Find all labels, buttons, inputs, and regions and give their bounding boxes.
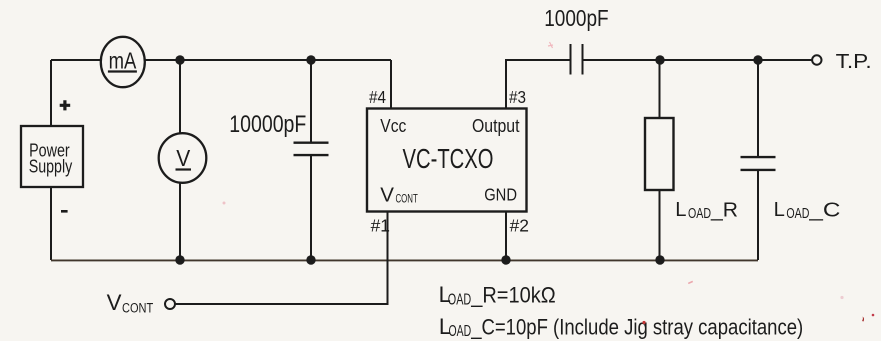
wire 10000pF top lead (310, 60, 312, 142)
junction dot top rail 10000pF (306, 55, 315, 64)
label Load_R (675, 199, 738, 222)
label Load_C (774, 199, 841, 222)
svg-text:#4: #4 (369, 87, 386, 107)
label Output pin name (472, 116, 520, 136)
wire load R bottom lead (659, 190, 661, 260)
svg-text:_R: _R (710, 199, 738, 221)
scan speck red dot right margin (872, 314, 875, 317)
wire left drop power supply (50, 60, 52, 260)
junction dot output rail load R (655, 55, 664, 64)
scan speck pink dash upper right of notes (688, 281, 693, 285)
voltmeter V (159, 133, 207, 183)
note Load_R value (439, 282, 556, 308)
svg-text:#3: #3 (509, 87, 526, 107)
resistor Load_R body (645, 118, 674, 190)
svg-text:Supply: Supply (29, 157, 73, 177)
wire pin4 drop (390, 60, 392, 108)
scan speck red dot below notes (642, 321, 645, 324)
junction dot top rail voltmeter (175, 55, 184, 64)
svg-text:VC-TCXO: VC-TCXO (403, 143, 494, 174)
label GND pin name (484, 185, 517, 205)
capacitor C 10000pF plates (294, 143, 329, 155)
svg-text:#2: #2 (510, 216, 529, 236)
svg-text:_C=10pF (Include Jig stray cap: _C=10pF (Include Jig stray capacitance) (470, 315, 803, 340)
svg-text:_C: _C (808, 199, 840, 221)
svg-text:Vcc: Vcc (380, 116, 406, 136)
label VC-TCXO (403, 143, 494, 174)
scan speck faint pink dot mid left (223, 202, 226, 205)
junction dot ground 10000pF (306, 255, 315, 264)
svg-text:_R=10kΩ: _R=10kΩ (470, 283, 555, 308)
label Vcont pin name (380, 184, 418, 207)
label 1000pF (544, 5, 608, 31)
capacitor C 1000pF plates (571, 44, 583, 75)
junction dot ground voltmeter (175, 255, 184, 264)
wire top rail from power supply to pin #4 (51, 59, 391, 61)
svg-text:OAD: OAD (786, 206, 809, 222)
label pin #2 (510, 216, 529, 236)
wire pin3 output to 1000pF (506, 60, 570, 108)
svg-text:CONT: CONT (122, 300, 153, 315)
svg-text:10000pF: 10000pF (229, 111, 306, 138)
svg-text:CONT: CONT (396, 192, 419, 206)
svg-text:L: L (675, 199, 686, 221)
wire pin2 to ground (505, 212, 507, 261)
label T.P. (836, 51, 872, 73)
power supply box (21, 126, 83, 187)
label plus terminal (60, 100, 70, 110)
wire 1000pF to test point (583, 59, 813, 61)
svg-text:L: L (774, 199, 785, 221)
label pin #1 (371, 216, 390, 236)
scan speck faint pink mark near 1000pF (548, 42, 553, 48)
VC-TCXO box U1 (367, 109, 527, 212)
scan speck faint pink dot (840, 296, 843, 299)
svg-text:V: V (380, 184, 394, 207)
scan speck dark red comma right margin (862, 317, 864, 322)
label minus terminal (61, 210, 68, 213)
svg-text:mA: mA (109, 47, 137, 73)
svg-text:Output: Output (472, 116, 520, 136)
wire load R top lead (659, 60, 661, 118)
svg-text:OAD: OAD (449, 323, 472, 340)
junction dot ground pin2 (501, 255, 510, 264)
wire 10000pF bottom lead (310, 156, 312, 260)
capacitor Load_C plates (741, 157, 776, 170)
Vcont input terminal circle (165, 299, 175, 309)
test point terminal circle (812, 55, 821, 64)
wire ground rail (51, 259, 758, 261)
svg-text:V: V (107, 290, 122, 315)
junction dot ground load R (655, 255, 664, 264)
wire load C bottom lead (757, 171, 759, 260)
svg-text:OAD: OAD (688, 206, 711, 222)
label Vcc pin name (380, 116, 406, 136)
svg-text:T.P.: T.P. (836, 51, 872, 73)
svg-text:V: V (176, 145, 191, 171)
wire Vcont pin1 drop (175, 212, 388, 305)
label pin #3 (509, 87, 526, 107)
svg-text:1000pF: 1000pF (544, 5, 608, 31)
junction dot output rail load C (753, 55, 762, 64)
wire voltmeter branch (179, 60, 181, 260)
label 10000pF (229, 111, 306, 138)
svg-text:OAD: OAD (448, 291, 471, 308)
label pin #4 (369, 87, 386, 107)
ammeter mA (101, 37, 145, 87)
label Vcont input (107, 290, 154, 316)
svg-text:GND: GND (484, 185, 517, 205)
wire load C top lead (757, 60, 759, 156)
note Load_C value (439, 314, 803, 340)
